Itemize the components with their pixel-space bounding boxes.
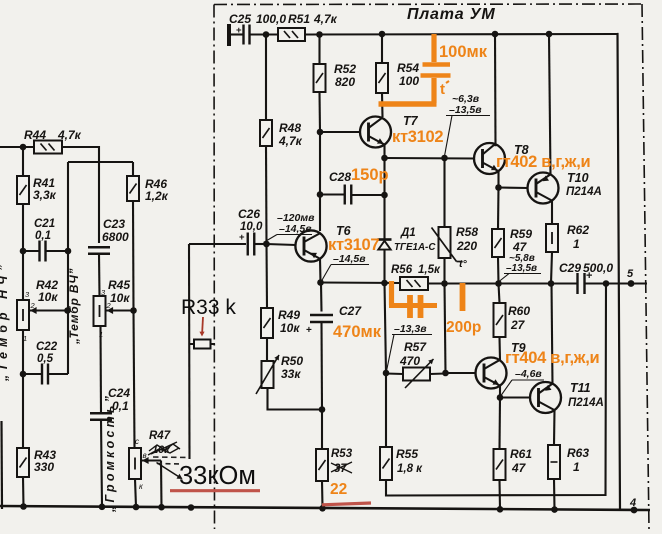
capacitor C26 [238, 207, 263, 256]
svg-text:кт3107: кт3107 [328, 236, 379, 254]
wire input to R44 [0, 146, 34, 148]
node bus R43 [20, 503, 27, 510]
svg-text:4,7к: 4,7к [57, 128, 82, 142]
transistor T7 [360, 114, 419, 148]
svg-text:C23: C23 [103, 217, 125, 231]
svg-text:R52: R52 [334, 62, 356, 76]
svg-text:R51: R51 [288, 12, 310, 26]
svg-text:10к: 10к [110, 291, 130, 305]
wire R44 to C23 top [62, 147, 99, 243]
node C28 left [317, 191, 324, 198]
node R57 right [442, 370, 449, 377]
node D1 bottom rail [381, 280, 388, 287]
wire R45 wiper [106, 307, 134, 314]
pin 4 [629, 497, 637, 513]
node bus R63 [551, 506, 558, 513]
svg-text:П214А: П214А [568, 397, 604, 409]
node C21 right [65, 248, 72, 255]
wire C26 to T6 base [255, 243, 267, 245]
svg-text:C29: C29 [559, 261, 581, 275]
node R57 left [383, 370, 390, 377]
annotation black arrow [157, 463, 183, 480]
annotation red underline 2 [322, 503, 371, 505]
capacitor C22 [23, 341, 68, 385]
node tone output junction [130, 307, 137, 314]
transistor T6 [295, 224, 351, 262]
wire T6 collector chain [319, 132, 321, 231]
wire R48 to T6 base node [265, 146, 268, 244]
wire T6 emitter down [319, 259, 322, 283]
svg-text:4,7к: 4,7к [278, 134, 303, 148]
node C21 left [20, 248, 27, 255]
diode D1 [378, 227, 437, 283]
svg-text:–14,5в: –14,5в [279, 223, 312, 235]
svg-text:R48: R48 [279, 121, 301, 135]
resistor R52 [314, 35, 357, 93]
svg-text:33к: 33к [281, 367, 301, 381]
potentiometer R42 [17, 251, 58, 343]
svg-text:t°: t° [459, 258, 467, 270]
title Плата УМ [407, 6, 496, 23]
wire R54 to T7 collector [381, 93, 384, 117]
node bus R47 [133, 504, 140, 511]
node T6 emitter rail [317, 279, 324, 286]
capacitor C28 [320, 170, 384, 205]
annotation кт3102 [392, 128, 443, 146]
annotation dashed wiper link [153, 457, 190, 464]
label Тембр НЧ [0, 260, 10, 382]
svg-text:C28: C28 [329, 170, 351, 184]
wire T11 emitter up [552, 284, 553, 385]
resistor R49 [261, 244, 300, 338]
svg-text:1: 1 [573, 237, 580, 251]
annotation гт402 [496, 153, 590, 171]
svg-text:220: 220 [456, 239, 477, 253]
wire C23 to R45 [98, 254, 101, 296]
wire top rail [305, 33, 617, 36]
svg-text:Плата УМ: Плата УМ [407, 6, 496, 23]
resistor R57 variable [386, 340, 446, 388]
capacitor C27 [306, 283, 362, 336]
annotation 200р text [446, 319, 481, 336]
potentiometer R47 [129, 430, 171, 491]
svg-text:R50: R50 [281, 354, 303, 368]
svg-text:Д1: Д1 [400, 227, 416, 239]
wire C26 input line [189, 243, 246, 245]
node T7 emitter junction [381, 155, 388, 162]
svg-text:к: к [139, 482, 144, 491]
voltage note ~5,8в -13,5в [499, 253, 541, 282]
transistor T10 [528, 171, 602, 204]
node T9 emitter junction [497, 394, 504, 401]
resistor R60 [494, 303, 531, 337]
resistor R63 [548, 445, 589, 479]
svg-text:R55: R55 [396, 447, 418, 461]
wire R42 wiper [29, 307, 68, 314]
wire C24 to bus [101, 420, 102, 507]
node R59-R60 rail [495, 280, 502, 287]
annotation capacitor 100мк [379, 34, 451, 104]
annotation resistor R33 symbol [190, 340, 216, 349]
node R54 top [379, 31, 386, 38]
node bus R61 [497, 506, 504, 513]
wire T7 base lead [320, 131, 361, 133]
svg-text:гт404 в,г,ж,и: гт404 в,г,ж,и [505, 349, 599, 367]
wire R62 to output node [551, 252, 552, 284]
resistor R61 [494, 398, 533, 481]
node C25-R48 junction [263, 31, 270, 38]
wire R42 to C22 [22, 330, 24, 374]
node bus input stub [188, 504, 195, 511]
svg-text:–13,5в: –13,5в [506, 263, 537, 274]
svg-text:„Тембр НЧ”: „Тембр НЧ” [0, 260, 10, 382]
wire volume node to R47 [134, 311, 135, 448]
wire D1 line to R57 node [385, 283, 387, 373]
svg-text:T11: T11 [570, 381, 591, 395]
svg-text:R59: R59 [510, 227, 532, 241]
svg-text:+: + [239, 232, 245, 243]
wire R33k input line [188, 244, 191, 459]
svg-text:820: 820 [335, 75, 355, 89]
resistor R55 [380, 373, 423, 480]
node T10 emitter top [546, 31, 553, 38]
svg-text:27: 27 [510, 318, 526, 332]
svg-text:R56: R56 [391, 264, 413, 276]
svg-text:C27: C27 [339, 304, 362, 318]
wire R47 wiper to bus [141, 457, 162, 508]
svg-text:R61: R61 [510, 447, 532, 461]
svg-text:R57: R57 [404, 340, 427, 354]
wire node157 to T8 base [385, 157, 476, 160]
annotation гт404 [505, 349, 599, 367]
node x606 rail [603, 280, 610, 287]
wire left edge stub [0, 421, 3, 509]
node C22 left [20, 371, 27, 378]
svg-text:330: 330 [34, 460, 54, 474]
resistor R51 [278, 12, 338, 41]
svg-text:R54: R54 [397, 61, 419, 75]
plus mark C25 [236, 25, 242, 36]
svg-text:100мк: 100мк [439, 43, 488, 61]
svg-text:22: 22 [330, 481, 347, 498]
svg-text:C26: C26 [238, 207, 260, 221]
wire D1 chain [383, 158, 385, 239]
annotation 150р [351, 166, 389, 184]
annotation R33 k text [181, 296, 236, 319]
svg-text:6800: 6800 [102, 230, 129, 244]
wire C27 to node409 [320, 322, 323, 410]
svg-text:R45: R45 [108, 278, 130, 292]
svg-text:33кОм: 33кОм [179, 462, 256, 490]
svg-text:4: 4 [629, 497, 636, 509]
wire R52 to T7 base [318, 92, 321, 132]
svg-text:R49: R49 [278, 308, 300, 322]
wire mid rail right [585, 282, 648, 284]
svg-text:+: + [586, 270, 592, 282]
svg-text:47: 47 [512, 240, 528, 254]
node bus R53 [319, 505, 326, 512]
node R52 top [316, 31, 323, 38]
capacitor C25 [229, 12, 286, 45]
svg-text:150р: 150р [351, 166, 389, 184]
svg-text:T10: T10 [567, 171, 589, 185]
resistor R58 thermo [432, 158, 479, 270]
board border right (dash-dot) [642, 4, 649, 529]
wire T8 emitter to node [497, 171, 499, 187]
svg-text:C24: C24 [108, 386, 130, 400]
wire T9 emitter to node [499, 386, 501, 398]
svg-text:кт3102: кт3102 [392, 128, 443, 146]
svg-text:100: 100 [399, 74, 419, 88]
node bus wiper [158, 504, 165, 511]
svg-text:R47: R47 [149, 430, 171, 442]
svg-text:„Тембр ВЧ”: „Тембр ВЧ” [67, 268, 81, 345]
pin 5 [627, 268, 634, 287]
svg-text:R63: R63 [567, 446, 589, 460]
svg-text:R33 k: R33 k [181, 296, 236, 319]
resistor R50 variable [256, 354, 303, 394]
svg-text:3: 3 [25, 290, 30, 299]
node R58 top [441, 155, 448, 162]
node T8 collector top [492, 31, 499, 38]
wire R46 to volume node [132, 201, 135, 311]
board border left (dash-dot) [213, 5, 216, 530]
svg-text:1,2к: 1,2к [145, 189, 169, 203]
svg-text:1: 1 [573, 460, 580, 474]
resistor R43 [17, 374, 56, 477]
wire R63 to bus [553, 479, 556, 510]
wire rail to R57 node [445, 284, 446, 374]
svg-text:4,7к: 4,7к [313, 12, 338, 26]
wire vertical x68 [67, 162, 69, 374]
annotation 33кОм text [179, 462, 256, 490]
label Тембр ВЧ [67, 268, 81, 345]
wire R43 to bus [22, 477, 25, 507]
resistor R62 [546, 223, 589, 252]
annotation red underline 1 [170, 489, 260, 492]
wire R47 to bus [135, 479, 136, 507]
svg-text:гт402 в,г,ж,и: гт402 в,г,ж,и [496, 153, 590, 171]
resistor R44 [24, 128, 82, 154]
svg-text:с: с [135, 437, 139, 446]
svg-text:1,8 к: 1,8 к [397, 463, 423, 475]
wire mid rail center [428, 282, 577, 284]
svg-text:ТГЕ1А-С: ТГЕ1А-С [394, 242, 436, 253]
annotation 22 [330, 481, 347, 498]
wire R58 to rail [443, 258, 445, 284]
wire T8 collector [494, 34, 497, 146]
resistor R59 [492, 188, 532, 258]
node T6 base junction [263, 241, 270, 248]
resistor R54 [376, 34, 419, 93]
svg-text:C21: C21 [34, 218, 55, 230]
svg-text:470: 470 [399, 354, 420, 368]
resistor R46 [127, 162, 169, 203]
voltage note -120мв -14,5в [264, 212, 316, 243]
svg-text:0,1: 0,1 [112, 399, 129, 413]
wire T11 collector to R63 [553, 410, 556, 445]
svg-text:C22: C22 [36, 341, 58, 353]
wire R41 to C21 node [22, 204, 24, 251]
svg-text:R58: R58 [456, 225, 478, 239]
svg-text:–14,5в: –14,5в [333, 253, 366, 265]
scribble over R47 value [148, 442, 180, 455]
transistor T11 [530, 381, 604, 413]
transistor T8 [474, 143, 529, 174]
wire to T11 base [500, 396, 531, 398]
svg-text:C25: C25 [229, 12, 251, 26]
svg-text:П214А: П214А [566, 186, 602, 198]
svg-text:R60: R60 [508, 304, 530, 318]
svg-text:3,3к: 3,3к [33, 188, 57, 202]
wire T10 collector to R62 [551, 201, 553, 224]
wire R45 to C24 [99, 326, 102, 413]
capacitor C24 [90, 386, 130, 420]
annotation t mark [440, 81, 449, 98]
svg-text:470мк: 470мк [333, 323, 382, 341]
node T7 base junction [317, 129, 324, 136]
node T8 emitter junction [495, 184, 502, 191]
wire R57 to T9 base [446, 372, 477, 374]
svg-text:T7: T7 [403, 114, 419, 128]
resistor R48 [260, 35, 303, 149]
annotation кт3107 [328, 236, 379, 254]
resistor R53 [316, 410, 353, 482]
svg-text:–13,5в: –13,5в [449, 104, 482, 116]
label Громкость [103, 393, 117, 513]
wire bridge y162 [68, 161, 133, 163]
svg-text:1,5к: 1,5к [418, 264, 441, 276]
svg-text:R62: R62 [567, 223, 589, 237]
svg-text:–13,3в: –13,3в [394, 323, 427, 335]
wire R49 to R50 [266, 338, 268, 361]
svg-text:R44: R44 [24, 128, 46, 142]
wire right supply rail [617, 34, 620, 510]
wire T7 emitter to node [383, 145, 385, 158]
svg-text:100,0: 100,0 [256, 12, 286, 26]
svg-text:10к: 10к [280, 321, 300, 335]
wire R61 to bus [498, 480, 501, 509]
svg-text:+: + [306, 325, 312, 336]
voltage note -4,6в [501, 368, 544, 396]
svg-text:10к: 10к [38, 290, 58, 304]
node C28 right [381, 192, 388, 199]
svg-text:200р: 200р [446, 319, 481, 336]
capacitor C23 [88, 217, 129, 254]
wire R59 to rail [497, 257, 500, 284]
svg-text:5: 5 [627, 268, 634, 280]
wire R60 to rail [499, 284, 500, 304]
wire T9 collector to R60 [498, 337, 501, 360]
wire T6 base lead [267, 244, 297, 245]
annotation 100мк text [439, 43, 488, 61]
wire T10 emitter up [549, 34, 551, 175]
annotation capacitor 200р [389, 281, 463, 318]
board border top (dash-dot) [214, 3, 642, 6]
input terminal C25 [227, 24, 231, 46]
resistor R56 [391, 264, 441, 290]
voltage note -13,3в [387, 323, 433, 371]
svg-text:–4,6в: –4,6в [515, 368, 542, 380]
annotation 470мк [333, 323, 382, 341]
svg-text:0,5: 0,5 [37, 353, 54, 365]
resistor R41 [17, 147, 57, 204]
svg-text:R53: R53 [331, 448, 353, 460]
wire to T10 base [499, 186, 529, 189]
potentiometer R45 [94, 278, 131, 339]
node output junction [548, 280, 555, 287]
transistor T9 [476, 341, 526, 389]
node R58 bottom rail [441, 280, 448, 287]
svg-text:47: 47 [511, 461, 527, 475]
capacitor C21 [23, 218, 68, 262]
voltage note ~6,3в -13,5в [445, 93, 491, 156]
node R42 wiper junction [64, 307, 71, 314]
svg-text:0,1: 0,1 [35, 230, 51, 242]
node C27-R50-R53 [319, 406, 326, 413]
svg-text:t: t [440, 81, 445, 98]
annotation red arrow [199, 317, 204, 337]
node bus C24 [99, 504, 106, 511]
node R44-R41 junction [20, 144, 27, 151]
wire mid rail left [321, 281, 401, 284]
wire R50 to node409 [268, 388, 323, 410]
wire R55 feedback loop [386, 284, 606, 496]
voltage note -14,5в T6 [322, 253, 370, 281]
capacitor C29 [559, 261, 613, 294]
wire R53 to bus [321, 481, 324, 508]
wire bottom bus [0, 506, 650, 510]
